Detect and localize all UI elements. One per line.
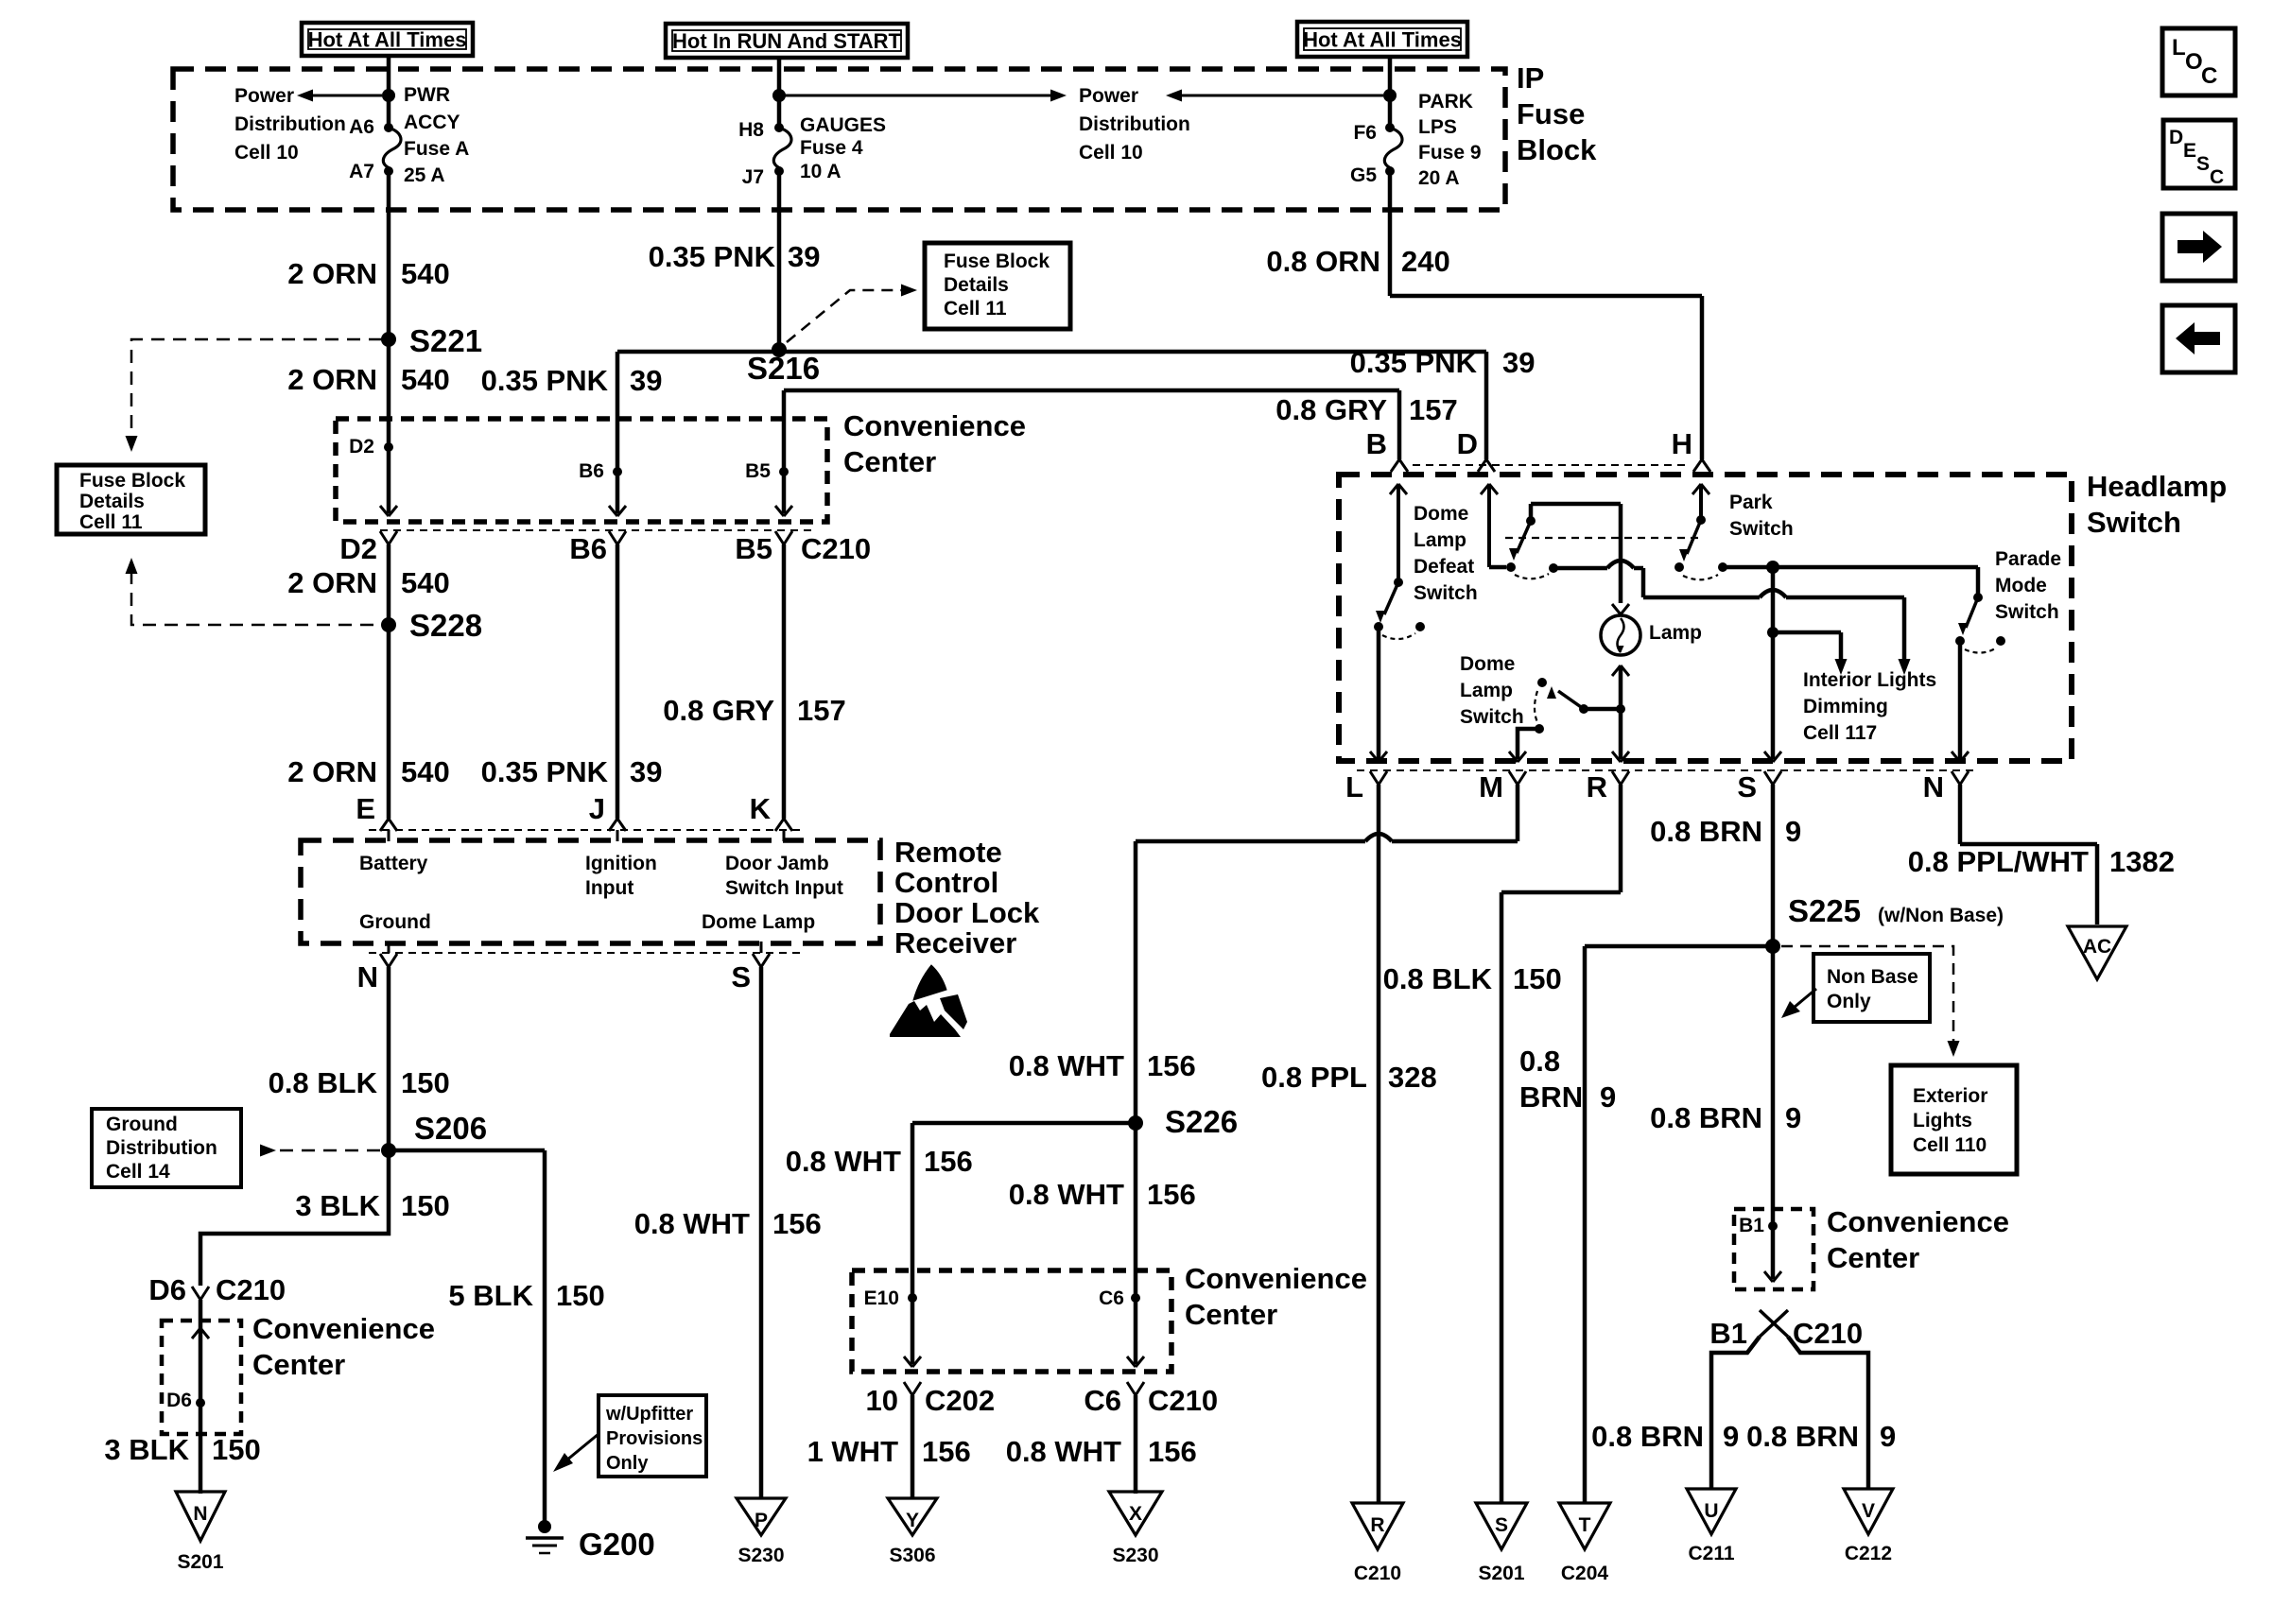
svg-text:J7: J7 bbox=[742, 166, 764, 188]
svg-text:Fuse Block: Fuse Block bbox=[79, 470, 185, 492]
svg-text:C210: C210 bbox=[801, 532, 871, 565]
svg-text:156: 156 bbox=[1147, 1049, 1196, 1082]
svg-text:0.8 WHT: 0.8 WHT bbox=[1009, 1049, 1124, 1082]
svg-text:0.8 BLK: 0.8 BLK bbox=[1383, 962, 1493, 995]
svg-text:Exterior: Exterior bbox=[1913, 1085, 1987, 1107]
svg-text:B6: B6 bbox=[579, 460, 604, 482]
svg-text:D6: D6 bbox=[166, 1390, 192, 1411]
svg-text:150: 150 bbox=[1513, 962, 1562, 995]
svg-text:150: 150 bbox=[401, 1189, 450, 1222]
svg-text:156: 156 bbox=[922, 1435, 971, 1468]
svg-text:Ground: Ground bbox=[359, 911, 431, 933]
svg-text:0.8 WHT: 0.8 WHT bbox=[786, 1145, 901, 1178]
svg-text:0.8 WHT: 0.8 WHT bbox=[1009, 1178, 1124, 1211]
svg-text:S206: S206 bbox=[414, 1111, 487, 1146]
svg-text:E: E bbox=[2183, 140, 2196, 162]
svg-text:Center: Center bbox=[843, 445, 936, 478]
svg-text:Switch: Switch bbox=[1729, 518, 1794, 540]
svg-text:Cell 117: Cell 117 bbox=[1803, 722, 1877, 744]
svg-text:S201: S201 bbox=[177, 1551, 223, 1573]
svg-text:Lamp: Lamp bbox=[1460, 680, 1513, 701]
svg-text:157: 157 bbox=[797, 694, 846, 727]
svg-text:L: L bbox=[1345, 770, 1363, 803]
svg-text:Fuse 9: Fuse 9 bbox=[1418, 142, 1482, 164]
svg-text:Distribution: Distribution bbox=[234, 113, 346, 135]
svg-text:C210: C210 bbox=[216, 1273, 286, 1306]
svg-text:Ground: Ground bbox=[106, 1114, 178, 1135]
svg-text:T: T bbox=[1579, 1514, 1591, 1536]
svg-text:Dome: Dome bbox=[1460, 653, 1515, 675]
svg-text:39: 39 bbox=[630, 364, 662, 397]
svg-text:0.8 BRN: 0.8 BRN bbox=[1591, 1420, 1704, 1453]
svg-text:U: U bbox=[1704, 1500, 1718, 1522]
svg-text:39: 39 bbox=[1502, 346, 1535, 379]
svg-text:X: X bbox=[1129, 1503, 1142, 1525]
svg-text:0.8 PPL: 0.8 PPL bbox=[1261, 1061, 1367, 1094]
svg-text:D6: D6 bbox=[148, 1273, 186, 1306]
svg-text:Fuse A: Fuse A bbox=[404, 138, 469, 160]
svg-text:0.8 WHT: 0.8 WHT bbox=[1006, 1435, 1121, 1468]
svg-text:Ignition: Ignition bbox=[585, 853, 657, 874]
svg-text:C6: C6 bbox=[1084, 1384, 1121, 1417]
svg-text:Switch: Switch bbox=[1995, 601, 2059, 623]
svg-text:150: 150 bbox=[212, 1433, 261, 1466]
svg-text:C212: C212 bbox=[1845, 1543, 1892, 1564]
svg-text:Lamp: Lamp bbox=[1414, 529, 1466, 551]
svg-text:(w/Non Base): (w/Non Base) bbox=[1878, 905, 2004, 926]
svg-text:S: S bbox=[1737, 770, 1757, 803]
svg-text:Dimming: Dimming bbox=[1803, 696, 1888, 717]
svg-text:540: 540 bbox=[401, 363, 450, 396]
svg-text:Fuse Block: Fuse Block bbox=[944, 251, 1050, 272]
svg-text:Convenience: Convenience bbox=[1185, 1262, 1367, 1295]
svg-text:Hot At All Times: Hot At All Times bbox=[1303, 28, 1462, 52]
svg-text:0.35 PNK: 0.35 PNK bbox=[481, 364, 609, 397]
svg-text:B5: B5 bbox=[745, 460, 771, 482]
svg-text:157: 157 bbox=[1409, 393, 1458, 426]
svg-text:Cell 14: Cell 14 bbox=[106, 1161, 170, 1183]
svg-text:G200: G200 bbox=[579, 1527, 655, 1562]
svg-text:Battery: Battery bbox=[359, 853, 428, 874]
svg-text:Control: Control bbox=[894, 866, 998, 899]
svg-text:156: 156 bbox=[1147, 1178, 1196, 1211]
svg-text:S230: S230 bbox=[737, 1545, 784, 1566]
svg-text:9: 9 bbox=[1880, 1420, 1896, 1453]
svg-text:C: C bbox=[2210, 166, 2224, 188]
svg-text:Details: Details bbox=[79, 491, 145, 512]
svg-text:Cell 11: Cell 11 bbox=[79, 511, 143, 533]
svg-text:w/Upfitter: w/Upfitter bbox=[605, 1404, 693, 1425]
svg-text:C211: C211 bbox=[1688, 1543, 1734, 1564]
svg-text:B1: B1 bbox=[1709, 1317, 1747, 1350]
svg-text:Hot At All Times: Hot At All Times bbox=[308, 28, 467, 52]
svg-text:Y: Y bbox=[906, 1510, 919, 1531]
svg-text:0.8 GRY: 0.8 GRY bbox=[1275, 393, 1387, 426]
svg-text:0.8: 0.8 bbox=[1519, 1045, 1560, 1078]
svg-text:D: D bbox=[1457, 427, 1478, 460]
svg-text:B6: B6 bbox=[569, 532, 607, 565]
svg-text:2 ORN: 2 ORN bbox=[287, 363, 377, 396]
svg-text:S226: S226 bbox=[1165, 1104, 1238, 1139]
svg-text:3 BLK: 3 BLK bbox=[295, 1189, 380, 1222]
svg-text:E: E bbox=[356, 792, 375, 825]
svg-text:N: N bbox=[357, 960, 378, 993]
svg-text:M: M bbox=[1479, 770, 1503, 803]
svg-text:Provisions: Provisions bbox=[606, 1428, 703, 1449]
svg-text:Convenience: Convenience bbox=[1827, 1205, 2009, 1238]
svg-text:0.8 PPL/WHT: 0.8 PPL/WHT bbox=[1908, 845, 2089, 878]
svg-text:156: 156 bbox=[772, 1207, 822, 1240]
svg-text:9: 9 bbox=[1785, 1101, 1801, 1134]
svg-text:Hot In RUN And START: Hot In RUN And START bbox=[672, 29, 902, 53]
svg-text:BRN: BRN bbox=[1519, 1080, 1583, 1114]
svg-text:Convenience: Convenience bbox=[252, 1312, 435, 1345]
svg-text:540: 540 bbox=[401, 257, 450, 290]
svg-text:ACCY: ACCY bbox=[404, 112, 460, 133]
svg-text:B1: B1 bbox=[1739, 1215, 1764, 1236]
svg-text:LPS: LPS bbox=[1418, 116, 1457, 138]
svg-text:V: V bbox=[1862, 1500, 1875, 1522]
svg-text:240: 240 bbox=[1401, 245, 1450, 278]
svg-text:E10: E10 bbox=[864, 1287, 899, 1309]
svg-text:P: P bbox=[755, 1510, 768, 1531]
svg-text:Remote: Remote bbox=[894, 836, 1002, 869]
svg-text:540: 540 bbox=[401, 566, 450, 599]
svg-text:H: H bbox=[1672, 427, 1692, 460]
svg-text:150: 150 bbox=[556, 1279, 605, 1312]
svg-text:Block: Block bbox=[1517, 133, 1597, 166]
svg-text:0.8 BRN: 0.8 BRN bbox=[1746, 1420, 1859, 1453]
svg-text:A6: A6 bbox=[349, 116, 374, 138]
svg-text:S228: S228 bbox=[409, 608, 482, 643]
svg-text:Power: Power bbox=[234, 85, 294, 107]
svg-text:Fuse: Fuse bbox=[1517, 97, 1585, 130]
svg-text:Cell 10: Cell 10 bbox=[234, 142, 299, 164]
svg-text:C: C bbox=[2201, 63, 2217, 89]
svg-text:Details: Details bbox=[944, 274, 1009, 296]
svg-text:C202: C202 bbox=[925, 1384, 995, 1417]
svg-text:5 BLK: 5 BLK bbox=[448, 1279, 533, 1312]
svg-text:Input: Input bbox=[585, 877, 633, 899]
svg-text:H8: H8 bbox=[738, 119, 764, 141]
svg-text:L: L bbox=[2172, 35, 2186, 60]
svg-text:2 ORN: 2 ORN bbox=[287, 257, 377, 290]
svg-text:Center: Center bbox=[1827, 1241, 1919, 1274]
svg-text:B: B bbox=[1366, 427, 1387, 460]
svg-text:Cell 10: Cell 10 bbox=[1079, 142, 1143, 164]
svg-text:C210: C210 bbox=[1793, 1317, 1863, 1350]
svg-text:Switch: Switch bbox=[1460, 706, 1524, 728]
svg-text:D2: D2 bbox=[349, 436, 374, 458]
svg-text:S216: S216 bbox=[747, 351, 820, 386]
svg-text:J: J bbox=[589, 792, 605, 825]
svg-text:PARK: PARK bbox=[1418, 91, 1473, 112]
svg-text:25 A: 25 A bbox=[404, 164, 445, 186]
svg-text:S: S bbox=[1495, 1514, 1508, 1536]
svg-text:S: S bbox=[731, 960, 751, 993]
svg-text:Center: Center bbox=[252, 1348, 345, 1381]
svg-text:Only: Only bbox=[606, 1453, 649, 1474]
svg-text:Headlamp: Headlamp bbox=[2087, 470, 2227, 503]
svg-text:9: 9 bbox=[1723, 1420, 1739, 1453]
svg-text:2 ORN: 2 ORN bbox=[287, 755, 377, 788]
svg-text:156: 156 bbox=[924, 1145, 973, 1178]
svg-text:Convenience: Convenience bbox=[843, 409, 1026, 442]
svg-text:Cell 110: Cell 110 bbox=[1913, 1134, 1987, 1156]
svg-text:0.35 PNK: 0.35 PNK bbox=[481, 755, 609, 788]
svg-text:Door Lock: Door Lock bbox=[894, 896, 1040, 929]
svg-text:S306: S306 bbox=[889, 1545, 935, 1566]
svg-text:1 WHT: 1 WHT bbox=[807, 1435, 899, 1468]
svg-text:0.8 BRN: 0.8 BRN bbox=[1650, 1101, 1762, 1134]
svg-text:Parade: Parade bbox=[1995, 548, 2061, 570]
svg-text:R: R bbox=[1370, 1514, 1384, 1536]
svg-text:F6: F6 bbox=[1353, 122, 1377, 144]
svg-text:Non Base: Non Base bbox=[1827, 966, 1918, 988]
svg-text:D2: D2 bbox=[339, 532, 377, 565]
svg-text:A7: A7 bbox=[349, 161, 374, 182]
svg-text:C210: C210 bbox=[1148, 1384, 1218, 1417]
svg-text:1382: 1382 bbox=[2109, 845, 2175, 878]
svg-text:S: S bbox=[2196, 153, 2210, 175]
svg-text:Fuse 4: Fuse 4 bbox=[800, 137, 863, 159]
svg-text:Power: Power bbox=[1079, 85, 1138, 107]
svg-text:C204: C204 bbox=[1561, 1563, 1609, 1584]
svg-text:Switch Input: Switch Input bbox=[725, 877, 843, 899]
svg-text:39: 39 bbox=[788, 240, 820, 273]
svg-text:O: O bbox=[2185, 49, 2203, 75]
svg-text:B5: B5 bbox=[735, 532, 772, 565]
svg-text:0.35 PNK: 0.35 PNK bbox=[1350, 346, 1478, 379]
svg-text:Switch: Switch bbox=[1414, 582, 1478, 604]
svg-text:Lights: Lights bbox=[1913, 1110, 1972, 1132]
svg-text:K: K bbox=[750, 792, 772, 825]
svg-text:AC: AC bbox=[2083, 936, 2111, 958]
svg-text:Center: Center bbox=[1185, 1298, 1277, 1331]
svg-text:20 A: 20 A bbox=[1418, 167, 1460, 189]
svg-text:156: 156 bbox=[1148, 1435, 1197, 1468]
svg-text:GAUGES: GAUGES bbox=[800, 114, 886, 136]
svg-text:39: 39 bbox=[630, 755, 662, 788]
svg-text:S221: S221 bbox=[409, 323, 482, 358]
svg-text:D: D bbox=[2169, 127, 2183, 148]
svg-text:0.8 GRY: 0.8 GRY bbox=[663, 694, 774, 727]
svg-text:C6: C6 bbox=[1099, 1287, 1124, 1309]
svg-text:9: 9 bbox=[1600, 1080, 1616, 1114]
svg-text:150: 150 bbox=[401, 1066, 450, 1099]
svg-text:Cell 11: Cell 11 bbox=[944, 298, 1007, 320]
svg-text:Switch: Switch bbox=[2087, 506, 2181, 539]
svg-text:10 A: 10 A bbox=[800, 161, 842, 182]
svg-text:Lamp: Lamp bbox=[1649, 622, 1702, 644]
svg-text:Mode: Mode bbox=[1995, 575, 2047, 596]
svg-text:3 BLK: 3 BLK bbox=[104, 1433, 189, 1466]
svg-text:G5: G5 bbox=[1350, 164, 1377, 186]
svg-text:0.8 ORN: 0.8 ORN bbox=[1266, 245, 1380, 278]
svg-text:2 ORN: 2 ORN bbox=[287, 566, 377, 599]
svg-text:Door Jamb: Door Jamb bbox=[725, 853, 829, 874]
svg-text:0.8 WHT: 0.8 WHT bbox=[634, 1207, 750, 1240]
svg-text:Dome: Dome bbox=[1414, 503, 1468, 525]
svg-text:9: 9 bbox=[1785, 815, 1801, 848]
svg-text:Defeat: Defeat bbox=[1414, 556, 1474, 578]
svg-text:PWR: PWR bbox=[404, 84, 450, 106]
svg-text:S225: S225 bbox=[1788, 893, 1861, 928]
svg-text:Interior Lights: Interior Lights bbox=[1803, 669, 1936, 691]
svg-text:C210: C210 bbox=[1354, 1563, 1401, 1584]
svg-text:S201: S201 bbox=[1478, 1563, 1524, 1584]
svg-text:S230: S230 bbox=[1112, 1545, 1158, 1566]
svg-text:R: R bbox=[1587, 770, 1607, 803]
svg-text:Distribution: Distribution bbox=[106, 1137, 217, 1159]
svg-text:Dome Lamp: Dome Lamp bbox=[702, 911, 815, 933]
svg-text:N: N bbox=[193, 1503, 207, 1525]
svg-text:IP: IP bbox=[1517, 61, 1544, 95]
svg-text:Receiver: Receiver bbox=[894, 926, 1016, 959]
svg-text:328: 328 bbox=[1388, 1061, 1437, 1094]
svg-text:10: 10 bbox=[866, 1384, 898, 1417]
svg-text:Distribution: Distribution bbox=[1079, 113, 1190, 135]
svg-text:0.8 BRN: 0.8 BRN bbox=[1650, 815, 1762, 848]
svg-text:Only: Only bbox=[1827, 991, 1871, 1012]
svg-text:Park: Park bbox=[1729, 492, 1773, 513]
svg-text:540: 540 bbox=[401, 755, 450, 788]
svg-text:0.35 PNK: 0.35 PNK bbox=[649, 240, 776, 273]
svg-text:N: N bbox=[1923, 770, 1944, 803]
svg-text:0.8 BLK: 0.8 BLK bbox=[269, 1066, 378, 1099]
